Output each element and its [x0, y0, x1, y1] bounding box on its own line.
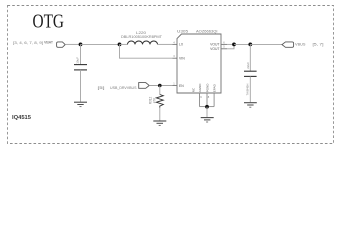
port connector VBAT — [57, 42, 66, 47]
wire junction E to resistor — [159, 86, 161, 95]
wire junction F to ground — [206, 107, 208, 117]
wire VOUT1 to junction C — [227, 43, 234, 45]
pin stub AGND — [199, 93, 201, 107]
wire junction D to VBUS port — [250, 43, 282, 45]
pin stub EPAD — [213, 93, 215, 107]
wire C310 to ground — [249, 76, 251, 102]
port connector USB_DRVVBUS — [139, 83, 150, 89]
wire capacitor to ground — [80, 70, 82, 102]
svg-text:47K: 47K — [153, 97, 157, 104]
capacitor C306 plates — [74, 64, 87, 66]
svg-text:EPAD: EPAD — [213, 83, 217, 92]
svg-text:LX: LX — [179, 43, 184, 47]
sheet border (dashed frame) — [8, 6, 334, 144]
svg-text:TA/B45H: TA/B45H — [246, 84, 250, 96]
svg-text:OTG: OTG — [33, 11, 65, 32]
pin stub LX — [173, 43, 178, 45]
svg-text:VOUT: VOUT — [210, 43, 219, 47]
svg-text:VBUS: VBUS — [295, 43, 306, 47]
junction D — [248, 43, 252, 47]
wire junction B down to VIN — [120, 44, 173, 58]
wire junction C to junction D — [234, 43, 250, 45]
ground (C306) — [74, 101, 87, 103]
svg-text:[3, 4, 6, 7, 8, 9]: [3, 4, 6, 7, 8, 9] — [13, 41, 43, 45]
svg-text:AGND: AGND — [198, 83, 202, 93]
wire port to EN pin — [149, 85, 172, 87]
ground (R312) — [153, 120, 166, 122]
pin stub VOUT2 — [221, 48, 227, 50]
resistor R312 — [156, 95, 163, 108]
junction C — [232, 43, 236, 47]
capacitor C310 plates — [244, 70, 257, 72]
wire inductor to pin LX — [158, 43, 173, 45]
svg-text:EN: EN — [179, 84, 184, 88]
svg-text:PGND: PGND — [205, 83, 209, 93]
svg-text:10uF: 10uF — [76, 57, 80, 64]
wire junction A to junction B — [81, 43, 120, 45]
pin stub VOUT1 — [221, 43, 227, 45]
capacitor C306 branch wire — [80, 44, 82, 64]
capacitor C310 branch wire — [249, 44, 251, 71]
junction B — [118, 43, 122, 47]
svg-text:[5]: [5] — [98, 86, 105, 90]
wire junction B to inductor — [120, 43, 128, 45]
ground (C310) — [244, 102, 257, 104]
svg-text:VOUT: VOUT — [210, 47, 219, 51]
svg-text:22uF: 22uF — [246, 62, 250, 69]
svg-text:USB_DRVVBUS: USB_DRVVBUS — [110, 86, 137, 90]
svg-text:AOZ6663QI: AOZ6663QI — [196, 29, 218, 33]
ground (U305) — [201, 117, 214, 119]
junction F — [205, 105, 209, 109]
svg-text:DBLR1005100KR8PMT: DBLR1005100KR8PMT — [121, 35, 162, 39]
wire joining ground pins — [200, 106, 215, 108]
wire VOUT2 up to junction C — [227, 44, 234, 48]
svg-text:[5, 7]: [5, 7] — [313, 43, 324, 47]
svg-text:U305: U305 — [177, 29, 188, 33]
pin stub VIN — [173, 57, 178, 59]
svg-text:IQ4515: IQ4515 — [12, 115, 31, 121]
svg-text:VBAT: VBAT — [44, 41, 54, 45]
wire VBAT to junction A — [65, 43, 80, 45]
inductor L220 — [128, 41, 158, 44]
svg-text:VIN: VIN — [179, 56, 185, 60]
op IC U305 box — [177, 34, 221, 93]
pin stub EN — [173, 85, 178, 87]
pin stub PGND — [206, 93, 208, 107]
port connector VBUS — [282, 42, 294, 47]
wire resistor to ground — [159, 108, 161, 121]
junction E — [158, 84, 162, 88]
junction A — [79, 43, 83, 47]
